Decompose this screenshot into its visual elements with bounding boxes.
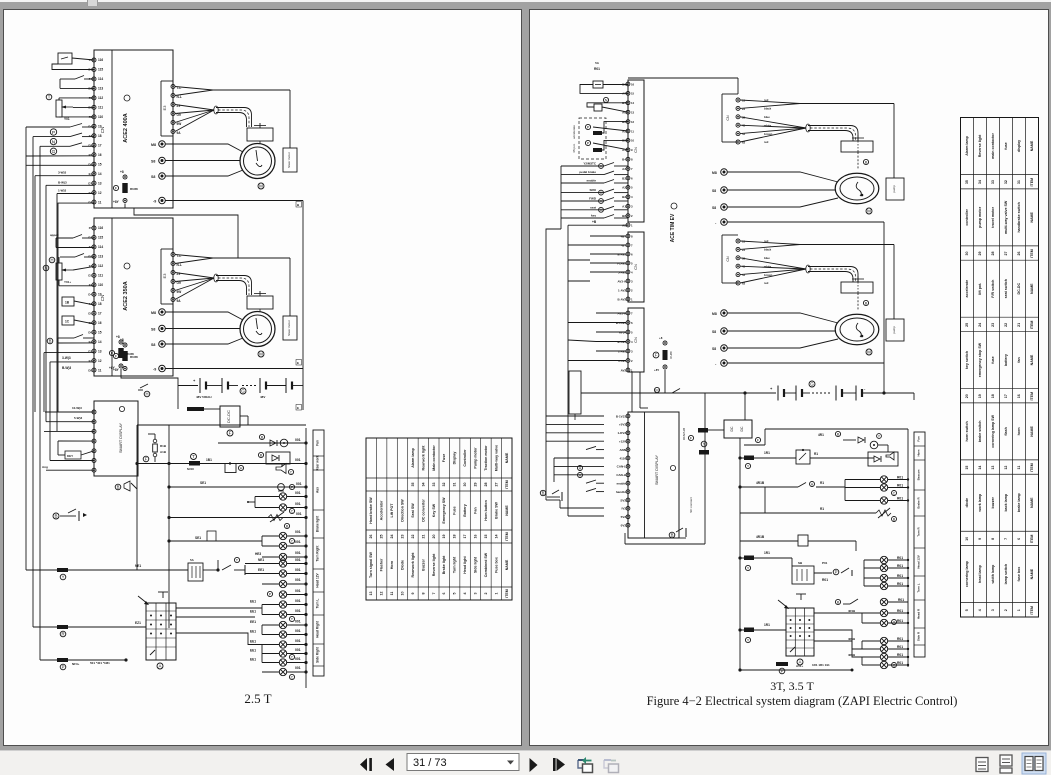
relay block SB <box>792 566 814 584</box>
bus vertical A <box>136 425 138 570</box>
aux +B pin and fuse <box>123 175 127 179</box>
battery negative pin <box>159 365 166 372</box>
battery G1 <box>178 385 198 387</box>
turn right lamp rows <box>262 604 280 606</box>
controller ACE2 350A rotated name label <box>124 263 130 269</box>
bottom feeder row <box>740 669 852 671</box>
wire +8Y to battery <box>121 369 178 386</box>
controller ACE2 350A block <box>94 218 173 376</box>
connector pins <box>736 239 740 243</box>
wire bundle elbow <box>808 126 858 142</box>
controller CN1 pins <box>626 82 630 86</box>
wire to label box <box>289 258 291 316</box>
wire <box>568 224 628 226</box>
controller name label <box>671 203 677 209</box>
switch and cap <box>222 565 231 570</box>
wire <box>764 487 766 513</box>
controller ACE2 350A pin row CN <box>92 226 96 230</box>
combination switch block <box>146 603 176 660</box>
motor phase wires <box>728 172 839 182</box>
controller CN2 pins <box>626 234 630 238</box>
connector CN2 block <box>721 235 723 283</box>
smart display feeder wires <box>546 415 604 417</box>
left feeder vertical 2 <box>567 255 569 460</box>
switch box 1B <box>62 297 74 306</box>
wire <box>58 98 60 100</box>
wire battery to DC-DC <box>744 393 746 420</box>
next page button <box>530 758 538 772</box>
fuse feeder row 2 <box>33 626 146 628</box>
parts list table right <box>961 118 1039 618</box>
two page layout icon selected <box>1022 753 1046 774</box>
relay row <box>738 556 741 559</box>
smart display switch rows <box>586 446 596 449</box>
bus vertical B <box>168 425 170 628</box>
wire <box>57 338 59 343</box>
accelerator potentiometer <box>56 100 62 117</box>
wire <box>568 259 590 261</box>
bus vertical right 001 <box>305 428 307 688</box>
controller ACE2 400A rotated name label <box>124 95 130 101</box>
wires from switch block <box>176 607 262 609</box>
aux fuse assembly 2 <box>119 340 123 344</box>
brake switch <box>58 337 74 339</box>
lamp row with P <box>267 591 272 596</box>
pump switch row <box>833 569 839 575</box>
connector pins <box>736 98 740 102</box>
controller top boundary wire <box>628 77 738 79</box>
previous view icon <box>578 757 593 773</box>
wire <box>124 204 126 209</box>
controller ACE3 block CN3 <box>628 308 644 372</box>
inter-assembly wire <box>134 208 238 258</box>
battery G2 <box>581 392 776 394</box>
controller CN3 pins <box>626 311 630 315</box>
motor M1 <box>835 173 879 203</box>
first page button <box>360 758 372 771</box>
wire lens to pump rail <box>740 100 800 104</box>
lamp pair 1 <box>255 496 280 498</box>
arrow into block <box>778 600 788 608</box>
connector E2 block <box>160 249 162 304</box>
work lamp rows <box>245 563 280 565</box>
key power row <box>137 463 306 465</box>
fuse on display bus <box>701 441 707 447</box>
wire <box>58 257 60 263</box>
head right lamp rows <box>262 624 280 626</box>
smart display P1 block <box>94 401 138 476</box>
wires to CN2 <box>590 235 626 237</box>
key switch symbol <box>140 384 148 388</box>
fuse F0 bar <box>177 386 179 410</box>
connector CN1 block <box>721 94 723 142</box>
flasher row right <box>740 512 876 514</box>
diode box and buzzer <box>266 452 290 464</box>
motor phase pins M8 S8 S8 <box>159 309 166 316</box>
wire <box>603 84 628 86</box>
output net strip table <box>313 430 324 676</box>
switch box 1C <box>62 316 74 325</box>
seat switch <box>60 78 75 80</box>
continuous layout icon <box>1000 755 1012 773</box>
DC-DC converter U3 <box>220 406 240 427</box>
controller ACE2 400A block <box>94 50 173 208</box>
controller ACE3 block CN2 <box>628 232 644 302</box>
battery negative pin <box>159 197 166 204</box>
relay 5A box <box>188 563 203 581</box>
motor pins M8 S8 S8 <box>721 169 728 176</box>
motor phase wires <box>166 144 244 152</box>
lift potentiometer <box>56 263 62 280</box>
wire <box>46 469 94 471</box>
horn button symbol <box>53 513 59 519</box>
display outer boundary <box>625 543 705 545</box>
wire CN3 to display <box>631 372 633 412</box>
hour meter box <box>603 97 608 102</box>
wire <box>59 79 61 88</box>
parts list table <box>366 438 512 600</box>
horn button symbol right <box>540 490 545 495</box>
wire <box>240 415 248 417</box>
single page layout icon <box>976 758 988 772</box>
main positive bus <box>739 438 741 670</box>
motor phase pins M8 S8 S8 <box>159 141 166 148</box>
wire <box>26 155 94 157</box>
wire <box>74 301 94 305</box>
fuse feeder row 3 <box>40 659 125 661</box>
wire <box>546 229 561 500</box>
aux +B pin and fuse <box>123 343 127 347</box>
connector pins <box>171 85 175 89</box>
display bus vertical <box>704 393 706 544</box>
next view icon (disabled) <box>604 760 619 773</box>
fuse R1B <box>153 439 157 443</box>
buzzer symbol <box>115 484 121 490</box>
lamp return bus right <box>907 429 909 667</box>
wire <box>72 58 94 60</box>
combination switch block right <box>786 608 814 656</box>
turn lamp row <box>169 486 306 488</box>
lamp cluster A <box>863 560 865 586</box>
bus horizontal top <box>137 424 306 426</box>
brake box <box>841 282 873 293</box>
brake resistor box <box>247 128 273 141</box>
negative rail vertical <box>302 201 304 411</box>
connector E1 block <box>160 81 162 136</box>
feeder to block <box>738 628 741 631</box>
key switch to bus <box>654 387 659 392</box>
smart display pins <box>626 414 630 418</box>
pump label box <box>886 319 904 341</box>
wire <box>546 499 560 501</box>
diode box right <box>868 452 898 466</box>
steering pump label box <box>283 316 297 340</box>
brake box <box>841 141 873 152</box>
wire lens to pump rail <box>740 241 800 245</box>
wire fan to bundle <box>740 258 806 269</box>
negative bus wire <box>166 200 304 202</box>
wire <box>203 569 218 571</box>
controller ACE2 400A pin row CN <box>92 58 96 62</box>
wire <box>74 320 94 324</box>
head lamp rows <box>169 540 262 542</box>
wire bundle elbow <box>808 267 858 283</box>
wire <box>664 370 666 393</box>
keyswitch box <box>65 451 81 459</box>
right page schematic group <box>540 61 1038 708</box>
wire <box>50 460 94 462</box>
wires to lamp pairs <box>814 612 862 614</box>
pump rail vertical <box>883 222 885 393</box>
wire <box>587 103 628 107</box>
motor M circle symbol <box>258 183 264 189</box>
smart display pins <box>92 410 96 414</box>
direction switch wires with connectors P N G <box>50 129 56 135</box>
traction motor M2 <box>240 312 275 347</box>
steering pump label box <box>283 148 297 172</box>
motor phase wires <box>728 313 839 323</box>
negative pin and wire <box>721 219 728 226</box>
negative bus wire <box>166 368 304 370</box>
wire <box>26 164 94 166</box>
left feeder vertical <box>560 166 562 229</box>
horn row 2 <box>835 599 840 604</box>
svg-text:31 / 73: 31 / 73 <box>413 757 447 769</box>
motor M circle symbol <box>258 351 264 357</box>
controller ACE3 block CN1 <box>628 80 644 222</box>
previous page button <box>386 758 395 771</box>
lamp single <box>262 583 280 585</box>
wire <box>58 203 94 412</box>
wire <box>55 238 57 248</box>
connector circles <box>578 466 583 471</box>
motor M2 <box>835 314 879 344</box>
arrow into switch block <box>138 596 148 604</box>
brake resistor box <box>247 296 273 309</box>
negative pin and wire <box>721 360 728 367</box>
aux fuse cluster right <box>663 341 667 345</box>
bottom lamp pairs <box>861 613 863 623</box>
connector pins <box>171 253 175 257</box>
fuse feeder row 1 <box>26 569 188 571</box>
traction motor M1 <box>240 144 275 179</box>
parts list table text <box>369 445 509 598</box>
wire <box>204 408 220 410</box>
accelerator pot <box>585 124 590 129</box>
battery fuse tall box <box>569 371 581 414</box>
bottom lamp <box>262 671 280 673</box>
wire bundle fan to brake unit <box>175 255 213 259</box>
relay K1 box <box>58 53 72 64</box>
last page button <box>553 758 565 771</box>
wire to label box <box>289 90 291 148</box>
output net strip table right <box>914 432 925 657</box>
key row <box>738 456 741 459</box>
side right lamp rows <box>262 644 280 646</box>
flasher row <box>169 517 306 519</box>
key switch wire <box>44 430 94 432</box>
pump label box <box>886 178 904 200</box>
lift pot <box>585 140 590 145</box>
left feeder bus 3 <box>39 146 41 660</box>
DC-DC converter <box>724 420 752 438</box>
parts list table right text <box>965 133 1034 615</box>
left feeder bus 1 <box>25 127 27 570</box>
wire fan to bundle <box>740 117 806 128</box>
motor phase wires <box>166 312 244 320</box>
horn circuit row <box>218 442 294 444</box>
motor pins M8 S8 S8 <box>721 310 728 317</box>
top boundary wire <box>765 428 908 430</box>
accelerator and lift pot dashed box <box>579 118 606 159</box>
wires to CN3 <box>596 312 626 314</box>
left page schematic group <box>26 50 512 706</box>
page number combo box <box>407 754 519 771</box>
smart display block right <box>628 412 679 538</box>
fuse bar <box>698 428 708 433</box>
wire bundle fan to brake unit <box>175 87 213 91</box>
left feeder bus 2 <box>32 137 34 627</box>
wire <box>44 351 94 353</box>
handbrake switch <box>60 256 75 258</box>
